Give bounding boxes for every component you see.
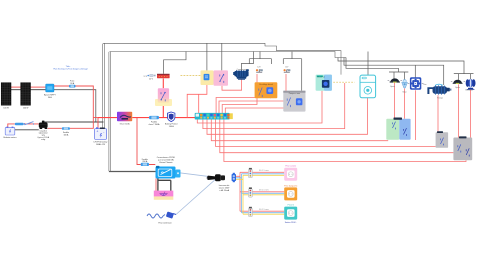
class T fuse	[149, 116, 159, 119]
AC triple cable to outlets	[236, 172, 284, 214]
alternator combiner	[39, 121, 48, 129]
yellow dashed wire 2	[333, 81, 354, 83]
small gray switch box	[436, 131, 449, 148]
svg-text:MaxxFan: MaxxFan	[317, 76, 325, 78]
svg-text:Prise cuisine: Prise cuisine	[285, 165, 296, 168]
inverter ground box	[154, 191, 174, 200]
svg-text:Chauffage diesel: Chauffage diesel	[259, 84, 274, 86]
svg-text:Plan électrique 12V du fourgon: Plan électrique 12V du fourgon aménagé	[53, 67, 87, 70]
wire fuse drop	[206, 43, 208, 74]
fuse F1 30A	[69, 85, 76, 88]
wire top loop TL3 socket1	[222, 74, 257, 113]
wire pump switch box stub	[221, 43, 223, 70]
compressor	[233, 69, 249, 79]
AC line shore to plug	[176, 179, 216, 214]
wire pinkbox to compressor	[222, 79, 242, 90]
battery protect shield	[168, 112, 175, 122]
wire fan stem	[414, 65, 416, 78]
solar panel P1	[1, 83, 11, 106]
wire top loop TL1 orange box	[216, 98, 270, 114]
shore power squiggle	[147, 214, 165, 218]
puck light 2	[451, 80, 465, 84]
wire socket T-bar 2	[283, 52, 301, 91]
inverter	[156, 166, 181, 179]
12V socket icon left	[144, 74, 156, 78]
maxx fan	[408, 77, 424, 89]
pink switch box (pump)	[214, 70, 229, 85]
red top loops from fuse block	[197, 74, 470, 162]
busbar 12V	[157, 74, 170, 79]
svg-text:Batterie moteur: Batterie moteur	[4, 136, 17, 139]
shunt monitor	[117, 112, 132, 121]
AC connector row3	[248, 207, 252, 217]
wire mppt positive to battery	[54, 86, 98, 129]
big gray switch box	[453, 136, 472, 160]
svg-text:Prise lit: Prise lit	[288, 204, 295, 207]
outlet box orange	[284, 187, 297, 200]
AC connector row2	[248, 187, 252, 197]
components layer	[1, 69, 475, 220]
water valve icon	[402, 80, 408, 89]
svg-text:Pompe: Pompe	[437, 98, 443, 100]
wire socket T-bar 1	[249, 52, 271, 65]
AC line inverter to plug	[180, 173, 216, 178]
svg-text:relay: relay	[41, 138, 45, 141]
12V socket icon B	[284, 69, 291, 72]
title text blue	[53, 65, 87, 71]
svg-text:100 W: 100 W	[3, 108, 9, 110]
wire inverter ground loop	[158, 178, 171, 193]
svg-text:Pompe a eau: Pompe a eau	[289, 93, 300, 95]
wire alternator negative	[44, 121, 104, 122]
wire loop B2 dash tap	[203, 83, 345, 129]
wire busbar top to nest	[164, 52, 186, 74]
wire riser string to big gray	[470, 90, 472, 138]
svg-text:100Ah 12V: 100Ah 12V	[96, 143, 106, 146]
wire loop B4 switch panel	[211, 120, 388, 141]
wire pump branch	[344, 58, 444, 86]
orange appliance box (heater)	[255, 82, 278, 98]
svg-text:Valve: Valve	[402, 92, 406, 94]
solar panel P2	[21, 83, 31, 106]
water pump right	[427, 84, 451, 94]
wire fridge stem	[367, 52, 369, 76]
wire riser puck1 to switch panel	[394, 82, 396, 118]
wire yellow fuse to main	[187, 80, 207, 117]
wire MPPT negative	[54, 90, 96, 122]
cable yellow	[236, 175, 284, 214]
AC selector plug	[207, 174, 225, 181]
wire loop B3 fridge	[207, 98, 368, 135]
switch panel green/blue	[386, 118, 410, 140]
wire battery negative trunk to top nest	[103, 43, 341, 128]
svg-text:3G 1.5 mm²: 3G 1.5 mm²	[259, 208, 269, 211]
svg-text:100 A: 100 A	[63, 133, 69, 136]
lantern light	[466, 79, 476, 90]
wire riser fan down	[415, 90, 417, 140]
svg-text:Prise extérieure: Prise extérieure	[158, 221, 171, 224]
fuse inverter 200A	[141, 163, 149, 166]
wire riser puck2 to big gray	[458, 84, 460, 137]
gray negative nest	[103, 43, 474, 171]
wire panel interconnect black	[11, 89, 21, 91]
AC connector row1	[248, 168, 252, 178]
svg-text:100 W: 100 W	[23, 108, 29, 110]
svg-text:+ diff. 30mA: + diff. 30mA	[219, 189, 230, 192]
leisure battery	[95, 127, 107, 139]
wire alternator to leisure battery positive	[48, 118, 94, 129]
svg-text:Victron Phoenix: Victron Phoenix	[159, 161, 172, 164]
gray appliance box	[283, 91, 305, 112]
cable red	[236, 172, 284, 211]
fuse block	[195, 113, 233, 120]
wire inverter feed	[137, 118, 155, 165]
svg-text:Compresseur: Compresseur	[237, 69, 248, 71]
svg-text:Title:: Title:	[66, 65, 71, 68]
fridge	[360, 75, 376, 98]
yellow dashed wire 1	[181, 75, 201, 77]
wire lights bus y61	[338, 58, 464, 74]
wire starter battery negative	[10, 129, 39, 131]
wire puck1+valve T	[389, 68, 408, 79]
svg-text:Spots: Spots	[455, 86, 460, 89]
svg-text:Sorties 230V~: Sorties 230V~	[285, 221, 298, 224]
wire loop B1 teal bottom	[197, 91, 322, 123]
svg-text:100 A: 100 A	[169, 125, 175, 128]
wire inverter negative horizontal	[109, 171, 158, 173]
wire top loop TL4 gray box	[225, 106, 290, 113]
wire main positive line	[98, 117, 195, 119]
svg-text:+: +	[96, 130, 98, 134]
wire riser valve to switch panel	[404, 89, 406, 119]
fuse F2 on starter wire	[15, 123, 24, 125]
wire loop B7 big gray box bottom	[224, 120, 466, 162]
wire panel interconnect red	[11, 86, 21, 88]
svg-text:3G 1.5 mm²: 3G 1.5 mm²	[259, 189, 269, 192]
wire panel2 to mppt black	[31, 89, 46, 91]
shore plug	[166, 211, 176, 218]
disconnect switch box	[155, 88, 172, 106]
wire loop B6 big gray box left	[220, 120, 454, 153]
wire busbar-disconnect-main	[162, 79, 164, 118]
wire top loop TL2 socket2	[219, 74, 286, 113]
switch on starter wire	[25, 122, 34, 125]
RCD breaker	[232, 173, 236, 182]
wire loop B5 small gray box	[216, 120, 436, 147]
wire puck2+string T-bar	[454, 74, 474, 81]
outlet box pink	[284, 168, 297, 181]
svg-text:Guirlande: Guirlande	[465, 90, 473, 92]
svg-text:3G 1.5 mm²: 3G 1.5 mm²	[259, 169, 269, 172]
labels layer	[3, 65, 473, 225]
wire panel2 to mppt red	[31, 86, 46, 88]
svg-text:Shunt 500A: Shunt 500A	[120, 122, 131, 125]
starter battery	[5, 127, 15, 135]
svg-text:Prise banquette: Prise banquette	[284, 184, 297, 187]
outlet box teal	[284, 207, 297, 220]
MPPT controller	[46, 84, 54, 92]
12V socket icon A	[256, 69, 263, 72]
wire lower lights bus y68	[346, 58, 399, 69]
svg-text:200 A: 200 A	[142, 160, 148, 163]
svg-text:Spots: Spots	[390, 85, 395, 88]
fuse F3 60A	[62, 127, 70, 130]
cable blue	[236, 174, 284, 213]
wire inverter negative trunk	[109, 52, 346, 172]
wire compressor stem	[242, 52, 254, 71]
wire inverter red stub	[155, 178, 157, 193]
wire riser pump to small gray	[437, 95, 439, 132]
svg-text:class T 300A: class T 300A	[149, 123, 161, 126]
yellow fuse box	[201, 70, 214, 85]
teal fan box	[316, 75, 332, 91]
wires layer	[8, 43, 474, 218]
svg-text:Fan: Fan	[423, 84, 426, 86]
wire starter battery positive	[8, 124, 39, 128]
puck light 1	[388, 78, 402, 82]
